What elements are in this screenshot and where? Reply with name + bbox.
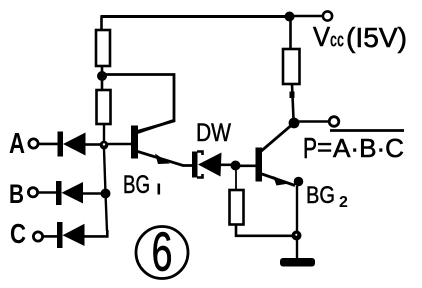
wire D3 to input bus corner — [85, 230, 108, 236]
node between R1 and R2 — [97, 71, 107, 81]
svg-text:A·B·C: A·B·C — [333, 133, 404, 163]
wire emitter down — [296, 186, 298, 232]
wire junction to R2 — [101, 80, 104, 90]
terminal A open circle — [29, 139, 38, 148]
resistor R1 — [96, 30, 110, 66]
svg-text:A: A — [9, 128, 25, 160]
svg-text:V: V — [313, 21, 330, 52]
resistor R4 — [230, 190, 244, 225]
svg-text:B: B — [9, 179, 24, 209]
node input-diode common (hollow) — [100, 141, 109, 150]
ground — [280, 258, 315, 267]
wire R3 to output node — [292, 84, 294, 119]
node BG2 emitter dot — [294, 177, 304, 187]
diode D3 (input C) — [57, 222, 85, 248]
wire D1 to node — [85, 143, 100, 146]
svg-text:P: P — [303, 133, 317, 165]
wire junction to R4 — [235, 170, 237, 190]
wire to Vcc terminal — [290, 15, 323, 18]
svg-text:DW: DW — [196, 119, 231, 147]
node B junction — [101, 189, 111, 199]
wire to output terminal — [294, 120, 328, 123]
node DW junction — [231, 161, 241, 171]
terminal B open circle — [28, 188, 37, 197]
diode D1 (input A) — [58, 132, 86, 157]
wire node to BG1 base — [108, 143, 131, 146]
wire D2 to junction — [83, 192, 102, 195]
svg-text:2: 2 — [339, 194, 348, 211]
svg-text:cc: cc — [330, 30, 344, 52]
resistor R2 — [97, 90, 111, 124]
resistor R3 — [283, 49, 300, 84]
node output junction — [289, 118, 300, 129]
diode D2 (input B) — [56, 181, 83, 205]
wire junction to BG2 base — [239, 165, 256, 168]
svg-text:C: C — [10, 218, 26, 249]
svg-text:(I5V): (I5V) — [346, 22, 407, 53]
diode DW (zener) — [192, 152, 222, 178]
svg-text:6: 6 — [152, 221, 173, 283]
wire DW to junction — [220, 164, 231, 167]
wire Vcc rail to R3 — [289, 17, 292, 50]
transistor BG1 — [131, 120, 192, 166]
wire top rail — [101, 15, 291, 18]
figure number circle 6 — [136, 221, 188, 283]
terminal C open circle — [33, 232, 42, 241]
label BG1 — [123, 171, 160, 199]
label Vcc (15V) — [313, 21, 407, 53]
svg-text:BG: BG — [306, 182, 335, 209]
svg-text:BG: BG — [123, 171, 150, 199]
wire junction to BG1 collector — [102, 75, 174, 132]
wire R2 to node A — [103, 124, 105, 141]
wire C terminal to diode — [43, 235, 58, 238]
svg-text:=: = — [317, 132, 332, 162]
transistor BG2 — [256, 123, 296, 186]
label BG2 — [306, 182, 348, 211]
node ground junction — [292, 231, 302, 241]
node top-rail junction — [285, 12, 295, 22]
wire R1 to junction — [101, 66, 104, 73]
wire R4 to ground junction — [236, 225, 292, 236]
wire node down input bus — [104, 149, 107, 231]
terminal P open circle — [329, 117, 339, 127]
wire A terminal to diode — [39, 143, 59, 146]
label P = A·B·C with overline — [303, 131, 404, 166]
wire top-left drop — [100, 17, 103, 32]
terminal Vcc open circle — [323, 11, 332, 20]
wire junction to ground — [296, 240, 298, 258]
wire B terminal to diode — [38, 191, 56, 194]
